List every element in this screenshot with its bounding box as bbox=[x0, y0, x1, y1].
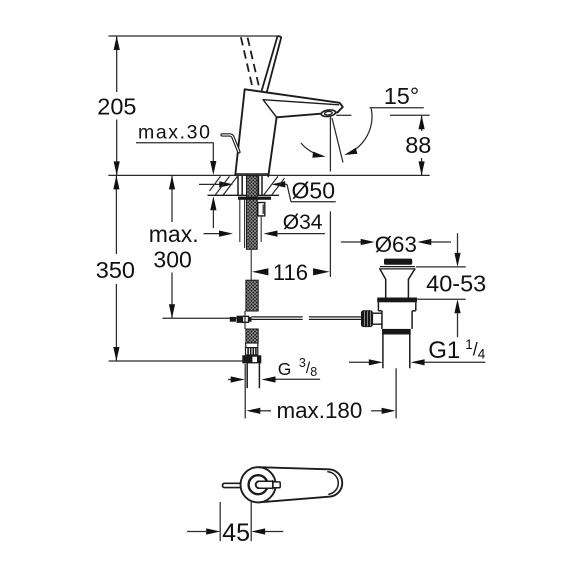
svg-text:G3/8: G3/8 bbox=[278, 356, 317, 379]
svg-text:300: 300 bbox=[153, 247, 191, 273]
svg-text:205: 205 bbox=[97, 93, 136, 119]
svg-text:Ø34: Ø34 bbox=[283, 211, 323, 234]
svg-text:G11/4: G11/4 bbox=[428, 337, 486, 364]
svg-text:Ø63: Ø63 bbox=[375, 232, 417, 257]
svg-text:45: 45 bbox=[222, 519, 250, 547]
svg-text:max.180: max.180 bbox=[276, 398, 362, 423]
svg-text:116: 116 bbox=[273, 260, 308, 285]
svg-text:max.: max. bbox=[149, 221, 199, 247]
svg-text:max.30: max.30 bbox=[138, 122, 212, 144]
svg-text:350: 350 bbox=[96, 257, 135, 283]
svg-text:40-53: 40-53 bbox=[426, 271, 486, 297]
svg-text:15°: 15° bbox=[384, 83, 420, 109]
svg-text:88: 88 bbox=[405, 132, 431, 158]
svg-text:Ø50: Ø50 bbox=[292, 178, 335, 204]
